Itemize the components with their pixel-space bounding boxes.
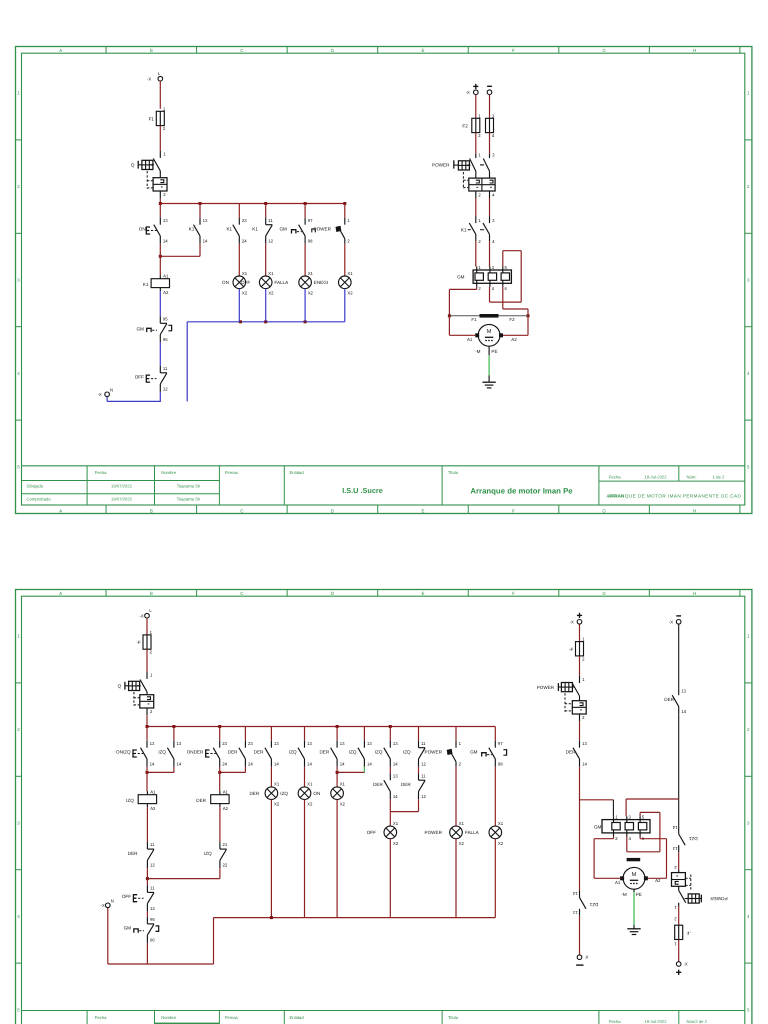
svg-text:1: 1 xyxy=(674,905,677,910)
wire xyxy=(579,624,581,642)
svg-text:K1: K1 xyxy=(252,226,258,231)
wire xyxy=(108,908,214,964)
svg-text:1: 1 xyxy=(17,91,20,96)
svg-text:5: 5 xyxy=(747,1007,750,1012)
junction xyxy=(343,202,346,205)
svg-text:F: F xyxy=(512,48,515,53)
breaker POWER 2-pole xyxy=(432,153,495,198)
svg-text:1: 1 xyxy=(163,152,166,157)
title block xyxy=(22,1010,745,1012)
wire xyxy=(147,868,220,879)
wire xyxy=(219,767,221,791)
svg-text:13: 13 xyxy=(367,741,372,746)
svg-text:1: 1 xyxy=(582,637,585,642)
svg-text:12: 12 xyxy=(150,906,155,911)
wire xyxy=(494,767,496,826)
svg-text:Fecha: Fecha xyxy=(609,1019,621,1024)
svg-text:5: 5 xyxy=(505,265,508,270)
svg-text:ENEGI: ENEGI xyxy=(314,280,328,285)
svg-text:14: 14 xyxy=(367,761,372,766)
motor M xyxy=(467,324,517,353)
wire PE xyxy=(633,889,635,929)
fuse -F xyxy=(569,637,585,662)
svg-text:A: A xyxy=(59,48,62,53)
contact IZQ 13-14 xyxy=(289,741,313,767)
svg-text:Arranque de motor Iman Pe: Arranque de motor Iman Pe xyxy=(470,486,573,495)
title block xyxy=(22,465,745,467)
wire xyxy=(159,81,161,109)
svg-text:4: 4 xyxy=(629,836,632,841)
wire xyxy=(238,289,240,322)
svg-text:X1: X1 xyxy=(459,821,465,826)
svg-text:4: 4 xyxy=(17,371,20,376)
svg-text:Comprobado: Comprobado xyxy=(27,497,52,502)
wire bus xyxy=(147,726,495,728)
wire xyxy=(494,727,496,741)
svg-text:1: 1 xyxy=(615,814,618,819)
svg-text:OFF: OFF xyxy=(367,830,376,835)
svg-text:X2: X2 xyxy=(498,841,504,846)
svg-text:-M: -M xyxy=(621,892,627,897)
svg-text:DZ1: DZ1 xyxy=(688,836,697,841)
wire xyxy=(219,727,221,741)
svg-text:Fecha: Fecha xyxy=(95,1015,107,1020)
svg-text:11: 11 xyxy=(421,741,426,746)
svg-text:FALLA: FALLA xyxy=(465,830,480,835)
wire xyxy=(146,943,148,964)
svg-text:14: 14 xyxy=(393,794,398,799)
lamp at x=304.6 xyxy=(299,271,328,296)
svg-text:5: 5 xyxy=(17,1007,20,1012)
wire xyxy=(146,911,148,917)
svg-text:N: N xyxy=(111,899,114,904)
wire xyxy=(418,767,420,774)
contact IZQ 13-14 xyxy=(375,741,399,767)
wire xyxy=(489,133,491,154)
svg-text:-F: -F xyxy=(569,647,574,652)
svg-text:FALLA: FALLA xyxy=(274,280,289,285)
wire xyxy=(146,618,148,635)
contactor GM 3-pole xyxy=(457,265,511,291)
contact DER 13-14 xyxy=(254,741,280,767)
svg-text:A: A xyxy=(59,591,62,596)
svg-text:2: 2 xyxy=(582,656,585,661)
svg-text:X1: X1 xyxy=(274,782,280,787)
svg-text:13: 13 xyxy=(307,741,312,746)
contact IZQ 13-14 xyxy=(349,741,373,767)
fuse F2 pole 2 xyxy=(486,113,495,138)
svg-text:ON: ON xyxy=(222,280,229,285)
svg-text:K1: K1 xyxy=(226,226,232,231)
svg-text:G: G xyxy=(602,508,606,513)
svg-text:98: 98 xyxy=(498,761,503,766)
svg-text:F: F xyxy=(512,508,515,513)
contact ONDER 23-24 xyxy=(187,741,228,767)
svg-text:1: 1 xyxy=(747,91,750,96)
svg-text:3: 3 xyxy=(492,218,495,223)
svg-text:I.S.U .Sucre: I.S.U .Sucre xyxy=(342,486,383,495)
svg-text:ONDER: ONDER xyxy=(187,749,204,754)
svg-text:X2: X2 xyxy=(308,291,314,296)
svg-text:24: 24 xyxy=(222,761,227,766)
wire xyxy=(625,799,627,816)
wire xyxy=(455,767,457,826)
wire xyxy=(146,868,148,885)
svg-text:98: 98 xyxy=(308,238,313,243)
svg-text:11: 11 xyxy=(150,842,155,847)
svg-text:13: 13 xyxy=(340,741,345,746)
wire xyxy=(580,799,614,801)
wire xyxy=(159,126,161,151)
svg-text:3: 3 xyxy=(17,278,20,283)
junction xyxy=(146,771,149,774)
svg-text:11: 11 xyxy=(268,218,273,223)
terminal -X + xyxy=(570,613,582,625)
wire bus L1 xyxy=(160,203,344,205)
wire xyxy=(489,95,491,119)
wire xyxy=(304,204,306,218)
svg-text:E: E xyxy=(421,508,424,513)
svg-text:3: 3 xyxy=(17,821,20,826)
svg-text:Fecha: Fecha xyxy=(609,474,621,479)
svg-text:H: H xyxy=(693,48,696,53)
svg-text:-X: -X xyxy=(570,620,574,625)
wire xyxy=(265,204,267,218)
svg-text:X2: X2 xyxy=(274,802,280,807)
wire xyxy=(219,807,221,842)
contact DER 23-24 xyxy=(228,741,254,767)
contact K1 power poles xyxy=(461,216,495,244)
svg-text:A2: A2 xyxy=(223,806,229,811)
pushbutton OFF contact 11-12 xyxy=(122,885,156,911)
junction xyxy=(336,771,339,774)
svg-text:A2: A2 xyxy=(511,337,517,342)
svg-text:X': X' xyxy=(585,954,589,959)
contact DER 11-12 xyxy=(128,842,156,868)
svg-text:Q: Q xyxy=(131,163,135,168)
svg-text:ONIZQ: ONIZQ xyxy=(116,749,131,754)
magnet bar xyxy=(627,858,641,861)
wire xyxy=(579,767,581,891)
junction xyxy=(389,725,392,728)
wire xyxy=(494,839,496,918)
junction xyxy=(264,202,267,205)
wire xyxy=(389,839,391,918)
svg-text:3: 3 xyxy=(492,113,495,118)
svg-text:24: 24 xyxy=(242,238,247,243)
svg-text:IZQ: IZQ xyxy=(349,749,357,754)
svg-text:X2: X2 xyxy=(242,291,248,296)
svg-text:B: B xyxy=(150,591,153,596)
wire xyxy=(159,342,161,366)
breaker Q xyxy=(118,672,154,715)
wire return bus xyxy=(214,917,496,919)
junction xyxy=(159,255,162,258)
wire xyxy=(678,624,680,688)
svg-text:IZQ: IZQ xyxy=(158,749,166,754)
page 2 control circuit xyxy=(100,608,506,964)
svg-text:4: 4 xyxy=(492,133,495,138)
svg-text:14: 14 xyxy=(150,761,155,766)
fuse F1 xyxy=(149,106,166,131)
svg-text:13: 13 xyxy=(177,741,182,746)
svg-text:2: 2 xyxy=(747,727,750,732)
wire xyxy=(449,316,475,336)
wire xyxy=(678,714,680,827)
svg-text:14: 14 xyxy=(203,238,208,243)
svg-text:11: 11 xyxy=(150,886,155,891)
wire xyxy=(146,807,148,842)
svg-text:G: G xyxy=(602,591,606,596)
wire jumper pole5 xyxy=(627,812,660,851)
breaker POWER 1-pole xyxy=(537,676,586,721)
svg-text:GM: GM xyxy=(279,226,287,231)
svg-text:DER: DER xyxy=(401,782,411,787)
svg-text:13: 13 xyxy=(163,218,168,223)
svg-text:X2: X2 xyxy=(307,802,313,807)
junction xyxy=(270,916,273,919)
contact GM 97-98 xyxy=(470,741,507,767)
junction xyxy=(304,202,307,205)
svg-text:PE: PE xyxy=(636,892,642,897)
terminal X prime - xyxy=(576,954,588,965)
svg-text:A2: A2 xyxy=(655,878,661,883)
border frame xyxy=(16,590,752,1024)
svg-text:M: M xyxy=(632,872,637,878)
wire xyxy=(199,244,201,257)
svg-text:13: 13 xyxy=(681,688,686,693)
svg-text:Titulo: Titulo xyxy=(448,470,459,475)
svg-text:A1: A1 xyxy=(163,274,169,279)
svg-text:12: 12 xyxy=(421,761,426,766)
svg-text:1: 1 xyxy=(459,741,462,746)
contact DER 13-14 xyxy=(373,773,398,799)
svg-text:2: 2 xyxy=(347,238,350,243)
svg-text:X1: X1 xyxy=(347,271,353,276)
svg-text:19/07/2022: 19/07/2022 xyxy=(111,484,133,489)
svg-text:X1: X1 xyxy=(242,271,248,276)
svg-text:OFF: OFF xyxy=(241,280,250,285)
svg-text:2: 2 xyxy=(615,836,618,841)
wire xyxy=(336,800,338,918)
svg-text:ON: ON xyxy=(139,226,146,231)
switch POWER contact 1-2 xyxy=(312,218,351,244)
svg-text:5: 5 xyxy=(17,464,20,469)
svg-text:N: N xyxy=(110,388,113,393)
svg-text:A2: A2 xyxy=(163,290,169,295)
svg-text:1 de 2: 1 de 2 xyxy=(713,474,725,479)
svg-text:K1: K1 xyxy=(143,282,149,287)
wire xyxy=(390,799,418,811)
svg-text:2: 2 xyxy=(582,715,585,720)
svg-text:Entidad: Entidad xyxy=(290,470,305,475)
wire xyxy=(626,798,679,800)
svg-text:97: 97 xyxy=(308,218,313,223)
wire xyxy=(304,244,306,276)
svg-text:12: 12 xyxy=(150,863,155,868)
wire xyxy=(336,727,338,741)
svg-text:Núm:: Núm: xyxy=(687,474,697,479)
contact IZQ 21-22 xyxy=(204,842,228,868)
svg-text:96: 96 xyxy=(150,938,155,943)
wire xyxy=(244,767,246,773)
svg-text:1: 1 xyxy=(478,265,481,270)
svg-text:A1: A1 xyxy=(467,337,473,342)
svg-text:2: 2 xyxy=(459,761,462,766)
svg-text:13: 13 xyxy=(582,741,587,746)
wire xyxy=(579,656,581,676)
svg-text:97: 97 xyxy=(498,741,503,746)
lamp at x=238.8 xyxy=(233,271,248,296)
svg-text:F2: F2 xyxy=(509,317,515,322)
wire green link xyxy=(363,767,365,773)
junction xyxy=(146,725,149,728)
wire xyxy=(304,727,306,741)
svg-text:Toapanta Sh: Toapanta Sh xyxy=(177,484,201,489)
svg-text:11: 11 xyxy=(163,366,168,371)
svg-text:X2: X2 xyxy=(393,841,399,846)
svg-text:3: 3 xyxy=(492,153,495,158)
svg-text:14: 14 xyxy=(307,761,312,766)
svg-text:4: 4 xyxy=(492,239,495,244)
wire xyxy=(304,767,306,787)
wire xyxy=(159,244,161,275)
svg-text:4: 4 xyxy=(747,914,750,919)
svg-text:GM: GM xyxy=(457,274,465,279)
svg-text:95: 95 xyxy=(163,316,168,321)
page 1 power circuit xyxy=(432,84,529,388)
svg-text:X1: X1 xyxy=(268,271,274,276)
svg-text:14: 14 xyxy=(582,761,587,766)
wire xyxy=(186,322,188,402)
junction xyxy=(218,725,221,728)
svg-text:PE: PE xyxy=(491,349,497,354)
svg-text:4: 4 xyxy=(492,192,495,197)
svg-text:Nombre: Nombre xyxy=(161,1015,177,1020)
svg-text:POWER: POWER xyxy=(537,685,555,690)
svg-text:-M: -M xyxy=(475,349,481,354)
page 1 control circuit xyxy=(98,71,354,402)
svg-text:POWER: POWER xyxy=(710,896,728,901)
svg-text:96: 96 xyxy=(163,337,168,342)
svg-text:14: 14 xyxy=(572,891,577,896)
svg-text:13: 13 xyxy=(672,846,677,851)
wire xyxy=(612,800,614,817)
wire xyxy=(146,649,148,672)
contact IZQ 11-12 xyxy=(403,741,427,767)
svg-text:A1: A1 xyxy=(615,880,621,885)
svg-text:1: 1 xyxy=(150,630,153,635)
junction xyxy=(448,314,451,317)
svg-text:-X: -X xyxy=(669,620,673,625)
svg-text:1: 1 xyxy=(674,941,677,946)
wire xyxy=(336,767,338,787)
wire xyxy=(418,727,420,741)
wire xyxy=(503,287,528,316)
svg-text:X2: X2 xyxy=(347,291,353,296)
svg-text:DER: DER xyxy=(228,749,238,754)
wire xyxy=(304,800,306,918)
svg-text:Firmas: Firmas xyxy=(225,470,238,475)
svg-text:IZQ: IZQ xyxy=(204,851,212,856)
svg-text:14: 14 xyxy=(274,761,279,766)
svg-text:14: 14 xyxy=(672,825,677,830)
wire xyxy=(159,198,161,203)
junction xyxy=(146,877,149,880)
junction xyxy=(264,320,267,323)
svg-text:3: 3 xyxy=(747,278,750,283)
svg-text:4: 4 xyxy=(492,286,495,291)
svg-text:D: D xyxy=(331,48,335,53)
svg-text:13: 13 xyxy=(203,218,208,223)
wire xyxy=(455,839,457,918)
svg-text:OFF: OFF xyxy=(122,894,131,899)
svg-text:Núm2 de 2: Núm2 de 2 xyxy=(687,1019,708,1024)
wire jumper pole5 xyxy=(490,251,522,302)
lamp OFF xyxy=(367,821,399,846)
svg-text:ARRAN: ARRAN xyxy=(608,493,624,498)
svg-text:X1: X1 xyxy=(498,821,504,826)
svg-text:-X: -X xyxy=(98,392,102,397)
svg-text:GM: GM xyxy=(136,327,144,332)
svg-text:IZQ: IZQ xyxy=(280,791,288,796)
svg-text:12: 12 xyxy=(268,238,273,243)
terminal -X - xyxy=(669,616,681,625)
wire xyxy=(344,244,346,276)
svg-text:X1: X1 xyxy=(307,782,313,787)
terminal -X L xyxy=(147,71,163,82)
svg-text:2: 2 xyxy=(17,727,20,732)
svg-text:E: E xyxy=(421,591,424,596)
svg-text:4: 4 xyxy=(747,371,750,376)
junction xyxy=(304,320,307,323)
wire xyxy=(270,800,272,918)
svg-text:X': X' xyxy=(684,961,688,966)
wire xyxy=(455,727,457,741)
contact DER 11-12 xyxy=(401,773,426,799)
page 2 power circuit xyxy=(537,613,728,975)
wire bus N xyxy=(187,321,345,323)
contact ONIZQ 13-14 xyxy=(116,741,155,767)
wire xyxy=(304,289,306,322)
contact DER 13-14 xyxy=(566,741,588,767)
svg-text:Firmas: Firmas xyxy=(225,1015,238,1020)
svg-text:4: 4 xyxy=(17,914,20,919)
svg-text:L: L xyxy=(149,608,152,613)
svg-text:95: 95 xyxy=(150,917,155,922)
svg-text:POWER: POWER xyxy=(432,162,450,167)
svg-text:K1: K1 xyxy=(461,228,467,233)
svg-text:B: B xyxy=(150,508,153,513)
contactor GM 3-pole xyxy=(594,814,650,841)
svg-text:C: C xyxy=(240,591,244,596)
contact IZQ 13-14 xyxy=(158,741,182,767)
svg-text:ON: ON xyxy=(313,791,320,796)
contact K1 23-24 xyxy=(226,218,247,244)
svg-text:2: 2 xyxy=(674,865,677,870)
lamp at x=265.2 xyxy=(259,271,289,296)
svg-text:12: 12 xyxy=(421,794,426,799)
junction xyxy=(527,314,530,317)
terminal - xyxy=(487,86,492,94)
svg-text:POWER: POWER xyxy=(425,749,443,754)
svg-text:DER: DER xyxy=(373,782,383,787)
svg-text:L: L xyxy=(158,71,161,76)
wire xyxy=(159,291,161,316)
svg-text:A: A xyxy=(59,508,62,513)
wire xyxy=(389,767,391,774)
wire xyxy=(475,241,477,266)
